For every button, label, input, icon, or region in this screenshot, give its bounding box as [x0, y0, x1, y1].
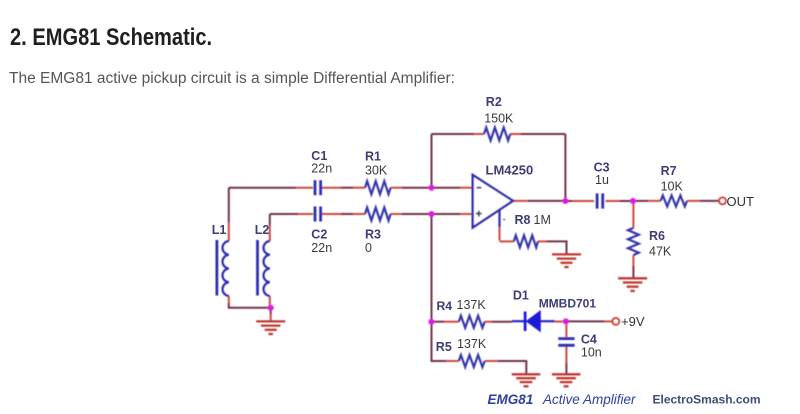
- wire feedback top left: [432, 133, 485, 135]
- svg-text:Active Amplifier: Active Amplifier: [542, 392, 636, 407]
- label R8: [515, 213, 531, 227]
- svg-text:R2: R2: [486, 95, 502, 109]
- svg-text:10n: 10n: [581, 346, 602, 360]
- node F junction dot: [563, 318, 569, 324]
- wire node F down to C4: [565, 321, 567, 337]
- ground below R8: [552, 254, 581, 267]
- OUT terminal: [719, 198, 726, 205]
- label C3 value 1u: [595, 173, 609, 187]
- svg-text:1u: 1u: [595, 173, 609, 187]
- svg-text:EMG81: EMG81: [488, 392, 534, 407]
- svg-text:R6: R6: [649, 229, 665, 243]
- label OUT: [727, 194, 755, 209]
- label R2: [486, 95, 502, 109]
- wire feedback left vertical: [431, 134, 433, 188]
- wire C4 to ground: [565, 347, 567, 375]
- label C4 value 10n: [581, 346, 602, 360]
- label R7 value 10K: [661, 180, 684, 194]
- wire node A to op-amp inverting input: [432, 187, 473, 189]
- svg-text:MMBD701: MMBD701: [539, 297, 597, 311]
- ground below R5: [512, 374, 541, 386]
- wire R4 to D1 cathode: [485, 320, 525, 323]
- wire node E down to R5: [432, 322, 459, 361]
- caption ElectroSmash.com: [653, 393, 761, 407]
- wire L1 bottom lead: [229, 296, 271, 308]
- label +9V: [621, 314, 645, 329]
- wire node F to +9V terminal: [566, 320, 613, 322]
- +9V terminal: [612, 318, 619, 325]
- label R4 value 137K: [457, 298, 487, 312]
- svg-text:1M: 1M: [534, 213, 551, 227]
- svg-text:0: 0: [365, 241, 372, 255]
- wire C3 to node D: [606, 200, 634, 202]
- wire node D to R7: [633, 200, 661, 202]
- node C junction dot: [562, 198, 568, 204]
- caption Active Amplifier: [542, 392, 636, 407]
- label R5: [436, 340, 452, 354]
- ground below C4: [552, 374, 581, 386]
- wire node B to op-amp non-inverting input: [432, 213, 473, 215]
- node E junction dot: [428, 319, 434, 325]
- subtitle paragraph: [9, 70, 455, 88]
- svg-text:30K: 30K: [365, 164, 388, 178]
- svg-text:R5: R5: [436, 340, 452, 354]
- capacitor C3: [597, 193, 603, 208]
- svg-text:R8: R8: [515, 213, 531, 227]
- label R4: [437, 299, 453, 313]
- svg-text:ElectroSmash.com: ElectroSmash.com: [653, 393, 761, 407]
- wire L2 bottom lead: [269, 296, 271, 308]
- wire R1 to node A: [391, 187, 432, 189]
- heading title: [10, 24, 212, 52]
- wire L1 top lead vertical: [228, 188, 230, 241]
- wire node E to R4: [432, 321, 459, 323]
- wire R3 to node B: [391, 213, 432, 215]
- label R3 value 0: [365, 241, 372, 255]
- label C4: [581, 333, 597, 347]
- wire L2 top lead vertical: [269, 214, 271, 241]
- label R1 value 30K: [365, 164, 388, 178]
- resistor R1: [365, 181, 391, 194]
- svg-text:137K: 137K: [457, 298, 487, 312]
- resistor R5: [459, 355, 485, 367]
- caption EMG81: [488, 392, 534, 407]
- wire op-amp output to node C: [513, 200, 566, 202]
- wire bias vertical node B to node E: [431, 214, 433, 322]
- inductor L2: [258, 240, 270, 296]
- resistor R8: [514, 235, 538, 247]
- wire R5 to ground: [485, 361, 527, 374]
- node D junction dot: [630, 198, 636, 204]
- ground below R6: [618, 278, 647, 291]
- resistor R7: [661, 195, 687, 206]
- resistor R4: [459, 316, 485, 328]
- svg-text:137K: 137K: [457, 337, 487, 351]
- wire R8 to ground: [538, 241, 567, 254]
- label R1: [365, 150, 381, 164]
- wire R7 to OUT terminal: [687, 200, 719, 202]
- svg-text:150K: 150K: [484, 112, 514, 126]
- diode D1: [525, 311, 540, 331]
- wire D1 anode to node F: [540, 320, 566, 322]
- op-amp U1 LM4250: [473, 175, 513, 228]
- label R6 value 47K: [649, 245, 672, 259]
- resistor R6 (vertical): [628, 228, 639, 255]
- label R5 value 137K: [457, 337, 487, 351]
- svg-text:L2: L2: [255, 223, 270, 237]
- svg-text:47K: 47K: [649, 245, 672, 259]
- svg-text:10K: 10K: [661, 180, 684, 194]
- inductor L1: [217, 240, 229, 296]
- wire node C to C3: [565, 200, 594, 202]
- svg-text:R4: R4: [437, 299, 453, 313]
- label C3: [594, 160, 610, 174]
- label R7: [661, 164, 677, 178]
- label R2 value 150K: [484, 112, 514, 126]
- wire node G to ground: [270, 308, 272, 322]
- wire row1 L1 to C1: [229, 187, 313, 189]
- label C2: [311, 228, 327, 242]
- capacitor C1: [315, 180, 321, 195]
- label R3: [365, 228, 381, 242]
- svg-text:L1: L1: [212, 223, 227, 237]
- svg-text:R7: R7: [661, 164, 677, 178]
- svg-text:R3: R3: [365, 228, 381, 242]
- svg-text:22n: 22n: [311, 241, 332, 255]
- svg-text:LM4250: LM4250: [486, 163, 534, 178]
- label R6: [649, 229, 665, 243]
- label L2: [255, 223, 270, 237]
- svg-text:OUT: OUT: [727, 194, 755, 209]
- wire feedback top right: [510, 133, 565, 135]
- wire op-amp V- pin: [498, 209, 500, 240]
- node B junction dot: [429, 211, 435, 217]
- svg-text:C4: C4: [581, 333, 597, 347]
- label LM4250: [486, 163, 534, 178]
- wire C2 to R3: [322, 213, 365, 215]
- label L1: [212, 223, 227, 237]
- label C2 value 22n: [311, 241, 332, 255]
- node A junction dot: [429, 185, 435, 191]
- svg-text:R1: R1: [365, 150, 381, 164]
- wire C1 to R1: [322, 187, 365, 189]
- wire feedback right vertical: [564, 134, 566, 201]
- label C1: [311, 149, 327, 163]
- wire V- to R8: [500, 240, 514, 242]
- label D1: [513, 289, 529, 303]
- ground below L1 L2: [256, 321, 285, 334]
- wire row2 L2 to C2: [270, 213, 313, 215]
- label MMBD701: [539, 297, 597, 311]
- node G junction dot: [268, 305, 274, 311]
- label R8 value 1M: [534, 213, 551, 227]
- label C1 value 22n: [311, 162, 332, 176]
- capacitor C2: [315, 207, 321, 222]
- resistor R2: [484, 128, 510, 141]
- svg-text:22n: 22n: [311, 162, 332, 176]
- wire node D to R6: [632, 201, 634, 228]
- resistor R3: [365, 208, 391, 221]
- wire R6 to ground: [632, 255, 634, 278]
- svg-text:C2: C2: [311, 228, 327, 242]
- svg-text:D1: D1: [513, 289, 529, 303]
- capacitor C4: [558, 339, 574, 346]
- svg-text:+9V: +9V: [621, 314, 645, 329]
